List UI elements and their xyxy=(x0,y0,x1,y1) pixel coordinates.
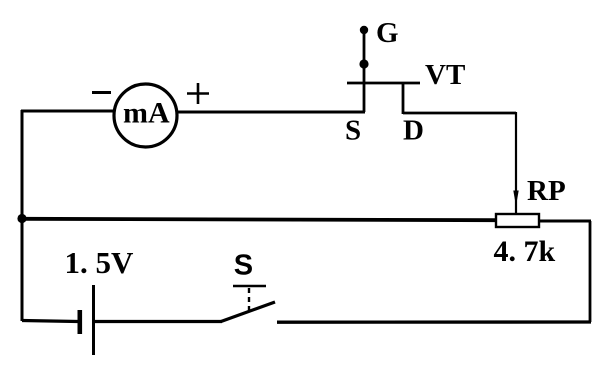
transistor VT xyxy=(347,26,420,114)
potentiometer RP body xyxy=(496,214,539,227)
wire top-right horizontal (ammeter to source S) xyxy=(145,111,365,114)
battery negative short plate xyxy=(78,310,83,334)
junction dot left node xyxy=(17,214,26,223)
wire top-left horizontal xyxy=(21,110,145,113)
label plus polarity xyxy=(187,83,209,104)
wire left vertical xyxy=(21,110,24,321)
svg-text:1. 5V: 1. 5V xyxy=(65,245,135,280)
svg-text:VT: VT xyxy=(425,59,465,91)
svg-text:S: S xyxy=(234,250,253,282)
svg-text:S: S xyxy=(345,115,361,147)
gate/source vertical lead xyxy=(363,30,366,112)
wire main middle horizontal xyxy=(22,219,497,220)
wire drain horizontal xyxy=(403,112,516,115)
channel bar xyxy=(347,82,420,85)
svg-text:mA: mA xyxy=(123,97,170,130)
switch blade xyxy=(221,302,275,322)
gate terminal dot xyxy=(360,26,368,34)
label minus polarity xyxy=(92,91,111,94)
switch S xyxy=(221,286,275,322)
wire right of RP xyxy=(538,220,591,223)
switch actuator tick xyxy=(233,285,266,288)
wire bottom left horizontal xyxy=(22,321,78,322)
gate junction dot xyxy=(359,59,368,68)
svg-text:G: G xyxy=(376,17,399,49)
svg-text:4. 7k: 4. 7k xyxy=(494,235,556,268)
wire right vertical xyxy=(589,221,592,322)
svg-text:RP: RP xyxy=(527,175,566,207)
potentiometer wiper arrow xyxy=(513,191,518,207)
ammeter mA xyxy=(114,84,177,147)
wire bottom right horizontal xyxy=(277,320,591,324)
svg-text:D: D xyxy=(403,115,424,147)
drain vertical lead xyxy=(402,83,405,114)
battery positive long plate xyxy=(92,285,95,355)
switch dashed link xyxy=(248,288,250,313)
wire battery to switch pivot xyxy=(95,320,222,323)
wire wiper vertical xyxy=(515,112,517,215)
